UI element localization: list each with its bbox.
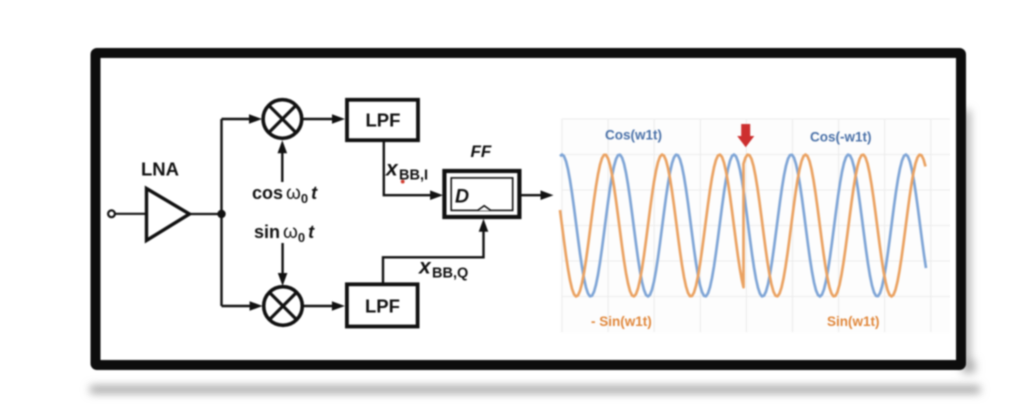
wire LPF1 to FF D input (xBB,I) with arrowhead — [384, 142, 443, 200]
input terminal — [108, 210, 115, 217]
wire to mixer M2 with arrowhead — [222, 301, 263, 311]
svg-text:LPF: LPF — [365, 296, 400, 317]
wire mixer M2 to LPF2 with arrowhead — [302, 301, 345, 311]
flip-flop FF outer box — [444, 171, 519, 217]
svg-text:Cos(-w1t): Cos(-w1t) — [810, 130, 872, 145]
red marker arrow — [737, 124, 754, 147]
slide frame — [96, 53, 962, 365]
LPF1 block — [347, 100, 418, 140]
op-amp LNA — [141, 159, 190, 241]
sin LO arrow into mixer M2 — [278, 243, 288, 286]
wire LPF2 to FF clock (xBB,Q) with arrowhead — [383, 219, 488, 285]
svg-text:Sin(w1t): Sin(w1t) — [827, 314, 880, 329]
cos LO arrow into mixer M1 — [278, 140, 288, 182]
wire input to LNA — [115, 213, 145, 215]
chart gridlines — [562, 119, 950, 332]
mixer M1 — [263, 100, 302, 139]
LPF2 block — [347, 284, 418, 326]
orange trace -Sin/Sin(w1t) — [560, 155, 926, 297]
svg-text:x: x — [385, 158, 399, 181]
svg-text:FF: FF — [471, 142, 492, 161]
svg-text:BB,Q: BB,Q — [432, 266, 468, 282]
red spellcheck dot — [401, 180, 405, 184]
shadow below slide — [90, 110, 980, 393]
blue trace Cos(w1t) — [560, 155, 926, 297]
wire trunk vertical — [220, 119, 222, 306]
svg-text:- Sin(w1t): - Sin(w1t) — [591, 314, 652, 329]
svg-text:LNA: LNA — [141, 159, 179, 180]
label xBB,I — [385, 158, 428, 184]
wire LNA to node — [190, 213, 222, 215]
svg-text:x: x — [418, 256, 432, 279]
node junction dot — [217, 210, 225, 218]
clock caret — [478, 206, 491, 211]
flip-flop FF inner box — [451, 178, 513, 211]
wire mixer M1 to LPF1 with arrowhead — [302, 114, 345, 124]
svg-text:LPF: LPF — [366, 110, 401, 131]
chart plot area — [560, 118, 950, 333]
svg-text:Cos(w1t): Cos(w1t) — [605, 128, 662, 143]
FF output wire with arrowhead — [519, 190, 554, 200]
label xBB,Q — [418, 256, 468, 282]
wire to mixer M1 with arrowhead — [222, 114, 263, 124]
mixer M2 — [264, 287, 303, 326]
svg-text:D: D — [455, 185, 469, 207]
